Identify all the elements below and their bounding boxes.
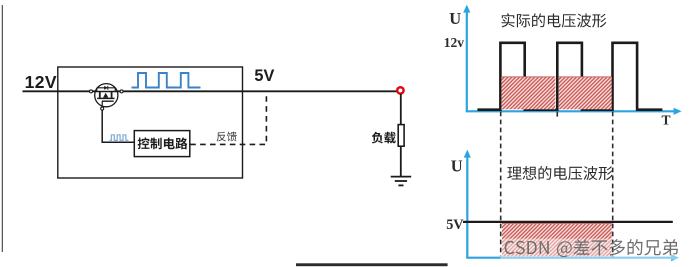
- label 反馈: [217, 132, 237, 142]
- svg-text:12v: 12v: [444, 35, 465, 50]
- output node (red terminal): [397, 87, 403, 93]
- Q1 terminal pins: [90, 90, 93, 93]
- wire gate to control circuit: [102, 110, 134, 142]
- wire 12V input to output node: [23, 90, 397, 92]
- bottom UI bar fragment: [296, 263, 448, 266]
- screen edge line: [1, 5, 3, 252]
- PWM waveform symbol: [132, 73, 201, 88]
- wire load to ground: [400, 147, 402, 177]
- svg-text:12V: 12V: [25, 72, 57, 92]
- svg-text:U: U: [451, 156, 463, 175]
- label 控制电路: [138, 137, 188, 149]
- feedback dashed wire: [190, 92, 266, 144]
- title 实际的电压波形: [502, 13, 607, 27]
- svg-text:U: U: [449, 9, 461, 28]
- svg-text:5V: 5V: [446, 217, 464, 233]
- graph 1 square wave: [477, 43, 662, 110]
- dashed guide line right: [612, 112, 614, 257]
- gate drive waveform symbol: [110, 135, 129, 140]
- transistor Q1 (MOSFET switch): [95, 84, 118, 108]
- watermark background: [500, 239, 685, 260]
- watermark CSDN @差不多的兄弟: [505, 239, 678, 257]
- graph 2 5V level line: [463, 221, 673, 223]
- svg-text:T: T: [662, 112, 671, 127]
- graph 2 hatched rect: [502, 223, 612, 256]
- svg-text:5V: 5V: [254, 67, 274, 85]
- graph 2 axes: [466, 155, 673, 258]
- graph 1 axes (U vs T): [466, 10, 676, 111]
- graph 1 hatched average-area rects: [501, 77, 555, 110]
- wire node to load: [400, 94, 402, 124]
- converter block outline: [58, 67, 243, 178]
- resistor RL (load): [398, 125, 404, 147]
- dashed guide line left: [500, 112, 502, 257]
- control circuit block U1: [134, 131, 190, 157]
- dashed guide stub middle: [556, 112, 558, 117]
- title 理想的电压波形: [507, 166, 612, 180]
- label 负载: [372, 132, 396, 144]
- ground: [391, 177, 412, 186]
